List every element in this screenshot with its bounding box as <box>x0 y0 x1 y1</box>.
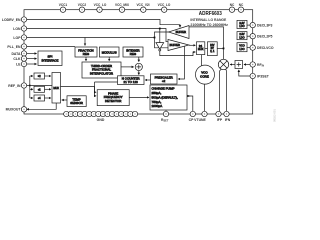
wire RF_IN to IF amp <box>244 64 251 66</box>
svg-text:MUX: MUX <box>53 87 59 90</box>
wire LOP net <box>24 37 155 39</box>
wire LODRV_EN net <box>24 20 180 28</box>
svg-text:LE: LE <box>16 62 21 66</box>
svg-text:500µA (DEFAULT),: 500µA (DEFAULT), <box>152 95 178 99</box>
svg-text:DETECTOR: DETECTOR <box>105 99 122 103</box>
svg-text:LDO: LDO <box>239 25 244 28</box>
svg-text:DECLVCO: DECLVCO <box>257 46 274 50</box>
wire MUX to PFD <box>61 87 97 96</box>
wire temp sensor to MUX <box>62 99 67 101</box>
svg-text:ADRF6603: ADRF6603 <box>199 11 222 17</box>
div4 divider block <box>34 95 45 101</box>
VCO LDO block <box>237 43 247 52</box>
N counter block <box>118 76 145 85</box>
svg-text:IP3SET: IP3SET <box>257 74 270 78</box>
wire CLK to SPI <box>24 58 37 60</box>
integer register block <box>123 47 143 57</box>
prescaler block <box>151 74 178 84</box>
svg-text:NC: NC <box>230 3 235 7</box>
wire N counter to PFD <box>95 81 118 83</box>
pin VCC_LO2 <box>162 7 167 12</box>
pin RSET <box>163 111 168 116</box>
svg-text:VCC_MIX: VCC_MIX <box>115 3 130 7</box>
wire LO tap to prescaler <box>178 45 184 79</box>
pin VTUNE <box>202 111 207 116</box>
pin LON <box>21 26 26 31</box>
pin CP <box>190 111 195 116</box>
pins GND row <box>64 111 138 116</box>
svg-text:DATA: DATA <box>11 52 21 56</box>
wire div2 to MUX <box>45 88 51 90</box>
LO inverter <box>156 43 164 51</box>
svg-text:VCC_LO: VCC_LO <box>94 3 107 7</box>
pin RF_IN <box>250 62 255 67</box>
wire LO node to mixer <box>223 48 225 59</box>
LO driver buffer (points left) <box>169 26 190 39</box>
chip outline <box>24 10 253 114</box>
wire mixer to IFN <box>226 69 227 111</box>
svg-text:RSET: RSET <box>161 118 169 123</box>
divide-by 2,1 block <box>208 42 218 56</box>
svg-text:PLL_EN: PLL_EN <box>7 45 21 49</box>
3.3V LDO block <box>237 20 247 28</box>
pin VCC1 <box>60 7 65 12</box>
wire LOP tap to fraction reg <box>84 38 86 46</box>
pin DECLVCO <box>247 45 255 50</box>
pin DATA <box>21 51 26 56</box>
svg-text:BUFFER: BUFFER <box>176 30 187 34</box>
junction LOP riser <box>154 37 156 39</box>
svg-text:LDO: LDO <box>239 36 244 39</box>
svg-text:MUX: MUX <box>198 48 204 51</box>
wire LOP to driver output <box>155 32 169 38</box>
svg-text:IFP: IFP <box>217 118 223 122</box>
wire PLL_EN net <box>24 46 75 48</box>
pin REF_IN <box>21 83 26 88</box>
pin NC 2 <box>238 7 243 12</box>
wire MUX to MUXOUT <box>27 103 56 109</box>
wire LON to inverter <box>159 29 161 43</box>
svg-text:09552-001: 09552-001 <box>273 109 277 122</box>
wire REF_IN branch riser <box>29 76 31 98</box>
svg-text:LOP: LOP <box>13 36 21 40</box>
wire 2:1 mux to divider <box>205 47 208 49</box>
wire integer reg to summer <box>138 57 140 62</box>
svg-text:MUXOUT: MUXOUT <box>6 108 22 112</box>
wire LE to SPI <box>24 63 37 65</box>
wire IF amp to mixer <box>230 64 235 66</box>
pin DECL2P5 <box>247 34 255 39</box>
phase frequency detector block <box>97 90 129 106</box>
svg-text:DECL3P3: DECL3P3 <box>257 23 273 27</box>
wire buffer to 2:1 mux <box>189 44 195 46</box>
svg-text:INTERPOLATOR: INTERPOLATOR <box>90 71 113 75</box>
SPI interface block <box>38 51 62 66</box>
svg-text:LON: LON <box>13 27 21 31</box>
svg-text:LODRV_EN: LODRV_EN <box>2 18 21 22</box>
wire mixer to IFP <box>220 69 222 111</box>
svg-text:CLK: CLK <box>13 57 21 61</box>
third-order fractional interpolator block <box>82 62 121 78</box>
wire N counter to PFD seg2 <box>95 82 97 92</box>
IF amplifier <box>235 61 243 69</box>
junction LO node <box>223 48 225 50</box>
wire x2 to MUX <box>45 75 51 77</box>
junction LON inverter tap <box>159 28 161 30</box>
svg-text:2, 1: 2, 1 <box>210 50 215 53</box>
pin LOP <box>21 35 26 40</box>
pin NC 1 <box>229 7 234 12</box>
svg-text:REG: REG <box>130 52 137 56</box>
svg-text:21 TO 123: 21 TO 123 <box>124 80 139 84</box>
pin DECL3P3 <box>247 22 255 27</box>
wire LO node to driver buffer <box>186 27 224 49</box>
svg-text:REG: REG <box>83 52 90 56</box>
wire DATA to SPI <box>24 53 37 55</box>
svg-text:SENSOR: SENSOR <box>70 101 83 105</box>
wire summer to N counter <box>138 71 140 75</box>
wire REF_IN net <box>24 85 52 87</box>
svg-text:250µA,: 250µA, <box>152 91 162 95</box>
svg-text:VCC_V2I: VCC_V2I <box>136 3 149 7</box>
svg-text:2100MHz TO 2600MHz: 2100MHz TO 2600MHz <box>190 23 228 27</box>
charge pump block <box>150 85 187 110</box>
wire IP3SET to IF amp <box>239 70 251 76</box>
svg-text:NC: NC <box>239 3 244 7</box>
junction prescaler tap <box>184 44 186 46</box>
pin MUXOUT <box>21 107 26 112</box>
svg-text:LDO: LDO <box>239 48 244 51</box>
svg-text:CORE: CORE <box>200 74 209 78</box>
wire divider to LO node <box>217 47 223 49</box>
wire prescaler to N counter <box>145 79 150 81</box>
pin VCC_LO <box>97 7 102 12</box>
pin IFP <box>216 111 221 116</box>
svg-text:CHARGE PUMP: CHARGE PUMP <box>152 87 175 91</box>
wire LOP to input buffer <box>155 38 169 48</box>
pin CLK <box>21 56 26 61</box>
LO input buffer (points right) <box>168 40 189 51</box>
reference mux block <box>52 73 61 104</box>
modulus register block <box>99 47 119 57</box>
wire VTUNE to VCO <box>204 84 206 112</box>
svg-text:÷2: ÷2 <box>162 79 166 83</box>
svg-text:VTUNE: VTUNE <box>194 118 206 122</box>
wire VCO to 2:1 mux <box>201 55 203 67</box>
wire charge pump to CP pin <box>187 96 193 111</box>
svg-text:RFIN: RFIN <box>257 63 264 68</box>
mixer <box>218 59 228 69</box>
2:1 mux block <box>197 42 205 55</box>
svg-text:IFN: IFN <box>225 118 231 122</box>
svg-text:750µA,: 750µA, <box>152 100 162 104</box>
wire riser to div4 <box>30 97 33 99</box>
pin PLL_EN <box>21 44 26 49</box>
svg-text:MODULUS: MODULUS <box>102 50 117 54</box>
wire PFD to charge pump <box>129 96 149 98</box>
wire inverter output <box>160 51 196 56</box>
pin IFN <box>224 111 229 116</box>
pin VCC_V2I <box>141 7 146 12</box>
wire interpolator to summer <box>121 66 134 68</box>
temp sensor block <box>67 96 86 107</box>
junction REF_IN riser <box>29 85 31 87</box>
svg-text:GND: GND <box>97 118 105 122</box>
wire modulus to interpolator <box>108 57 110 61</box>
svg-text:DECL2P5: DECL2P5 <box>257 34 273 38</box>
fraction register block <box>75 47 97 57</box>
wire LON net <box>24 29 168 42</box>
summer node <box>135 63 142 70</box>
pin LODRV_EN <box>21 17 26 22</box>
wire riser to x2 <box>30 75 33 77</box>
2.5V LDO block <box>237 32 247 40</box>
pin VCC_MIX <box>119 7 124 12</box>
svg-text:INTERNAL LO RANGE: INTERNAL LO RANGE <box>190 18 226 22</box>
x2 doubler block <box>34 73 45 79</box>
wire riser to div2 <box>30 88 33 90</box>
pin LE <box>21 61 26 66</box>
div2 divider block <box>34 86 45 92</box>
svg-text:VCC1: VCC1 <box>59 3 68 7</box>
svg-text:VCC_LO: VCC_LO <box>158 3 171 7</box>
svg-text:VCC2: VCC2 <box>78 3 87 7</box>
wire div4 to MUX <box>45 97 51 99</box>
pin IP3SET <box>250 73 255 78</box>
svg-text:BUFFER: BUFFER <box>170 43 181 47</box>
wire RSET to charge pump <box>165 110 167 111</box>
svg-text:1000µA: 1000µA <box>152 104 164 108</box>
svg-text:REF_IN: REF_IN <box>8 84 21 88</box>
wire fraction reg to interpolator <box>85 57 87 61</box>
VCO core <box>196 65 215 84</box>
svg-text:INTERFACE: INTERFACE <box>42 59 59 63</box>
pin VCC2 <box>79 7 84 12</box>
